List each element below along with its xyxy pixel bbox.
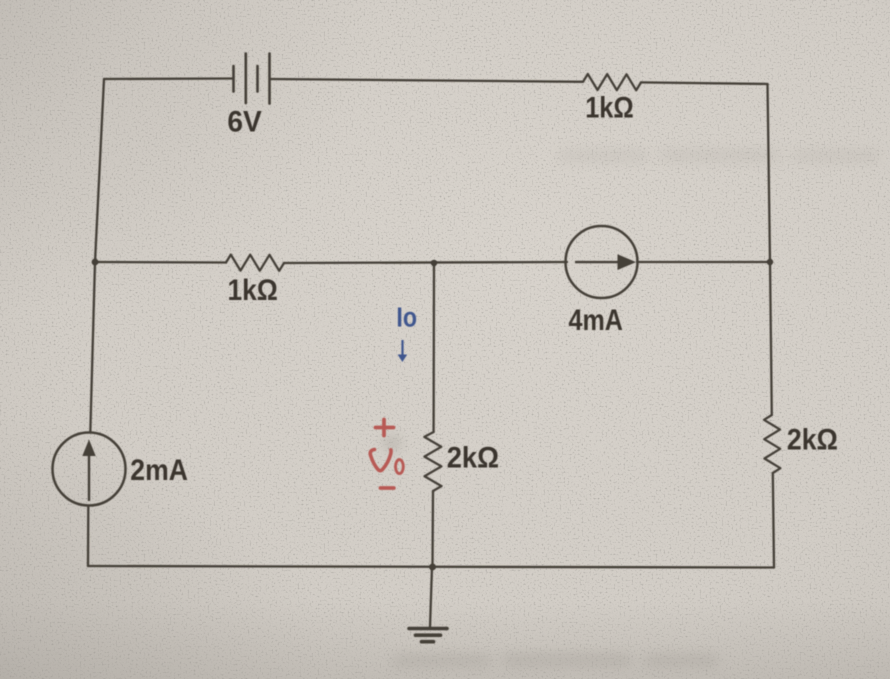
wire left rail middle xyxy=(90,262,95,433)
ground bars xyxy=(409,629,447,642)
blue Io arrow xyxy=(398,340,408,362)
vo subscript o (red) xyxy=(396,460,404,474)
current source I1 2mA circle xyxy=(53,433,126,506)
label minus (red) xyxy=(381,486,394,490)
svg-text:1kΩ: 1kΩ xyxy=(228,274,278,307)
wire right rail upper xyxy=(768,84,771,262)
wire middle rail right xyxy=(637,261,770,263)
wire left rail lower xyxy=(87,506,90,567)
svg-text:2kΩ: 2kΩ xyxy=(447,441,499,474)
svg-text:Io: Io xyxy=(396,302,417,333)
svg-text:2kΩ: 2kΩ xyxy=(787,424,838,457)
faint page bleed-through text bottom xyxy=(392,654,718,666)
current source I2 4mA circle xyxy=(566,226,638,298)
label + (red) xyxy=(370,420,403,489)
node junction dot left xyxy=(92,259,99,266)
battery B1 6V plates xyxy=(234,54,270,104)
svg-text:6V: 6V xyxy=(227,105,261,138)
resistor R1 1k (top) xyxy=(583,74,641,90)
wire left rail upper xyxy=(95,79,104,262)
corner shading xyxy=(0,0,380,320)
wire top-middle segment xyxy=(271,79,584,82)
node junction dot center xyxy=(431,260,437,266)
wire middle branch lower xyxy=(431,491,434,567)
wire bottom rail xyxy=(88,566,774,568)
node junction dot right xyxy=(767,259,773,265)
4mA arrow xyxy=(575,261,620,263)
wire middle rail left xyxy=(95,261,226,264)
svg-text:1kΩ: 1kΩ xyxy=(585,91,634,124)
wire top-right segment xyxy=(641,82,768,84)
label vo script v (red) xyxy=(370,450,391,471)
resistor R4 2k (right) xyxy=(764,415,780,473)
wire top-left segment xyxy=(104,77,233,80)
wire right rail middle xyxy=(770,262,772,415)
resistor R3 2k (middle) xyxy=(424,432,441,491)
node junction dot bottom xyxy=(429,564,436,571)
faint page bleed-through text upper right xyxy=(558,149,880,162)
wire middle rail center xyxy=(284,262,567,263)
eraser smudge xyxy=(383,436,401,450)
2mA arrow xyxy=(88,454,90,501)
wire right rail lower xyxy=(773,473,774,568)
wire middle branch upper xyxy=(432,263,435,432)
svg-text:2mA: 2mA xyxy=(130,454,188,487)
svg-text:4mA: 4mA xyxy=(569,304,623,337)
resistor R2 1k (middle) xyxy=(226,255,284,271)
ground stem xyxy=(430,567,432,627)
